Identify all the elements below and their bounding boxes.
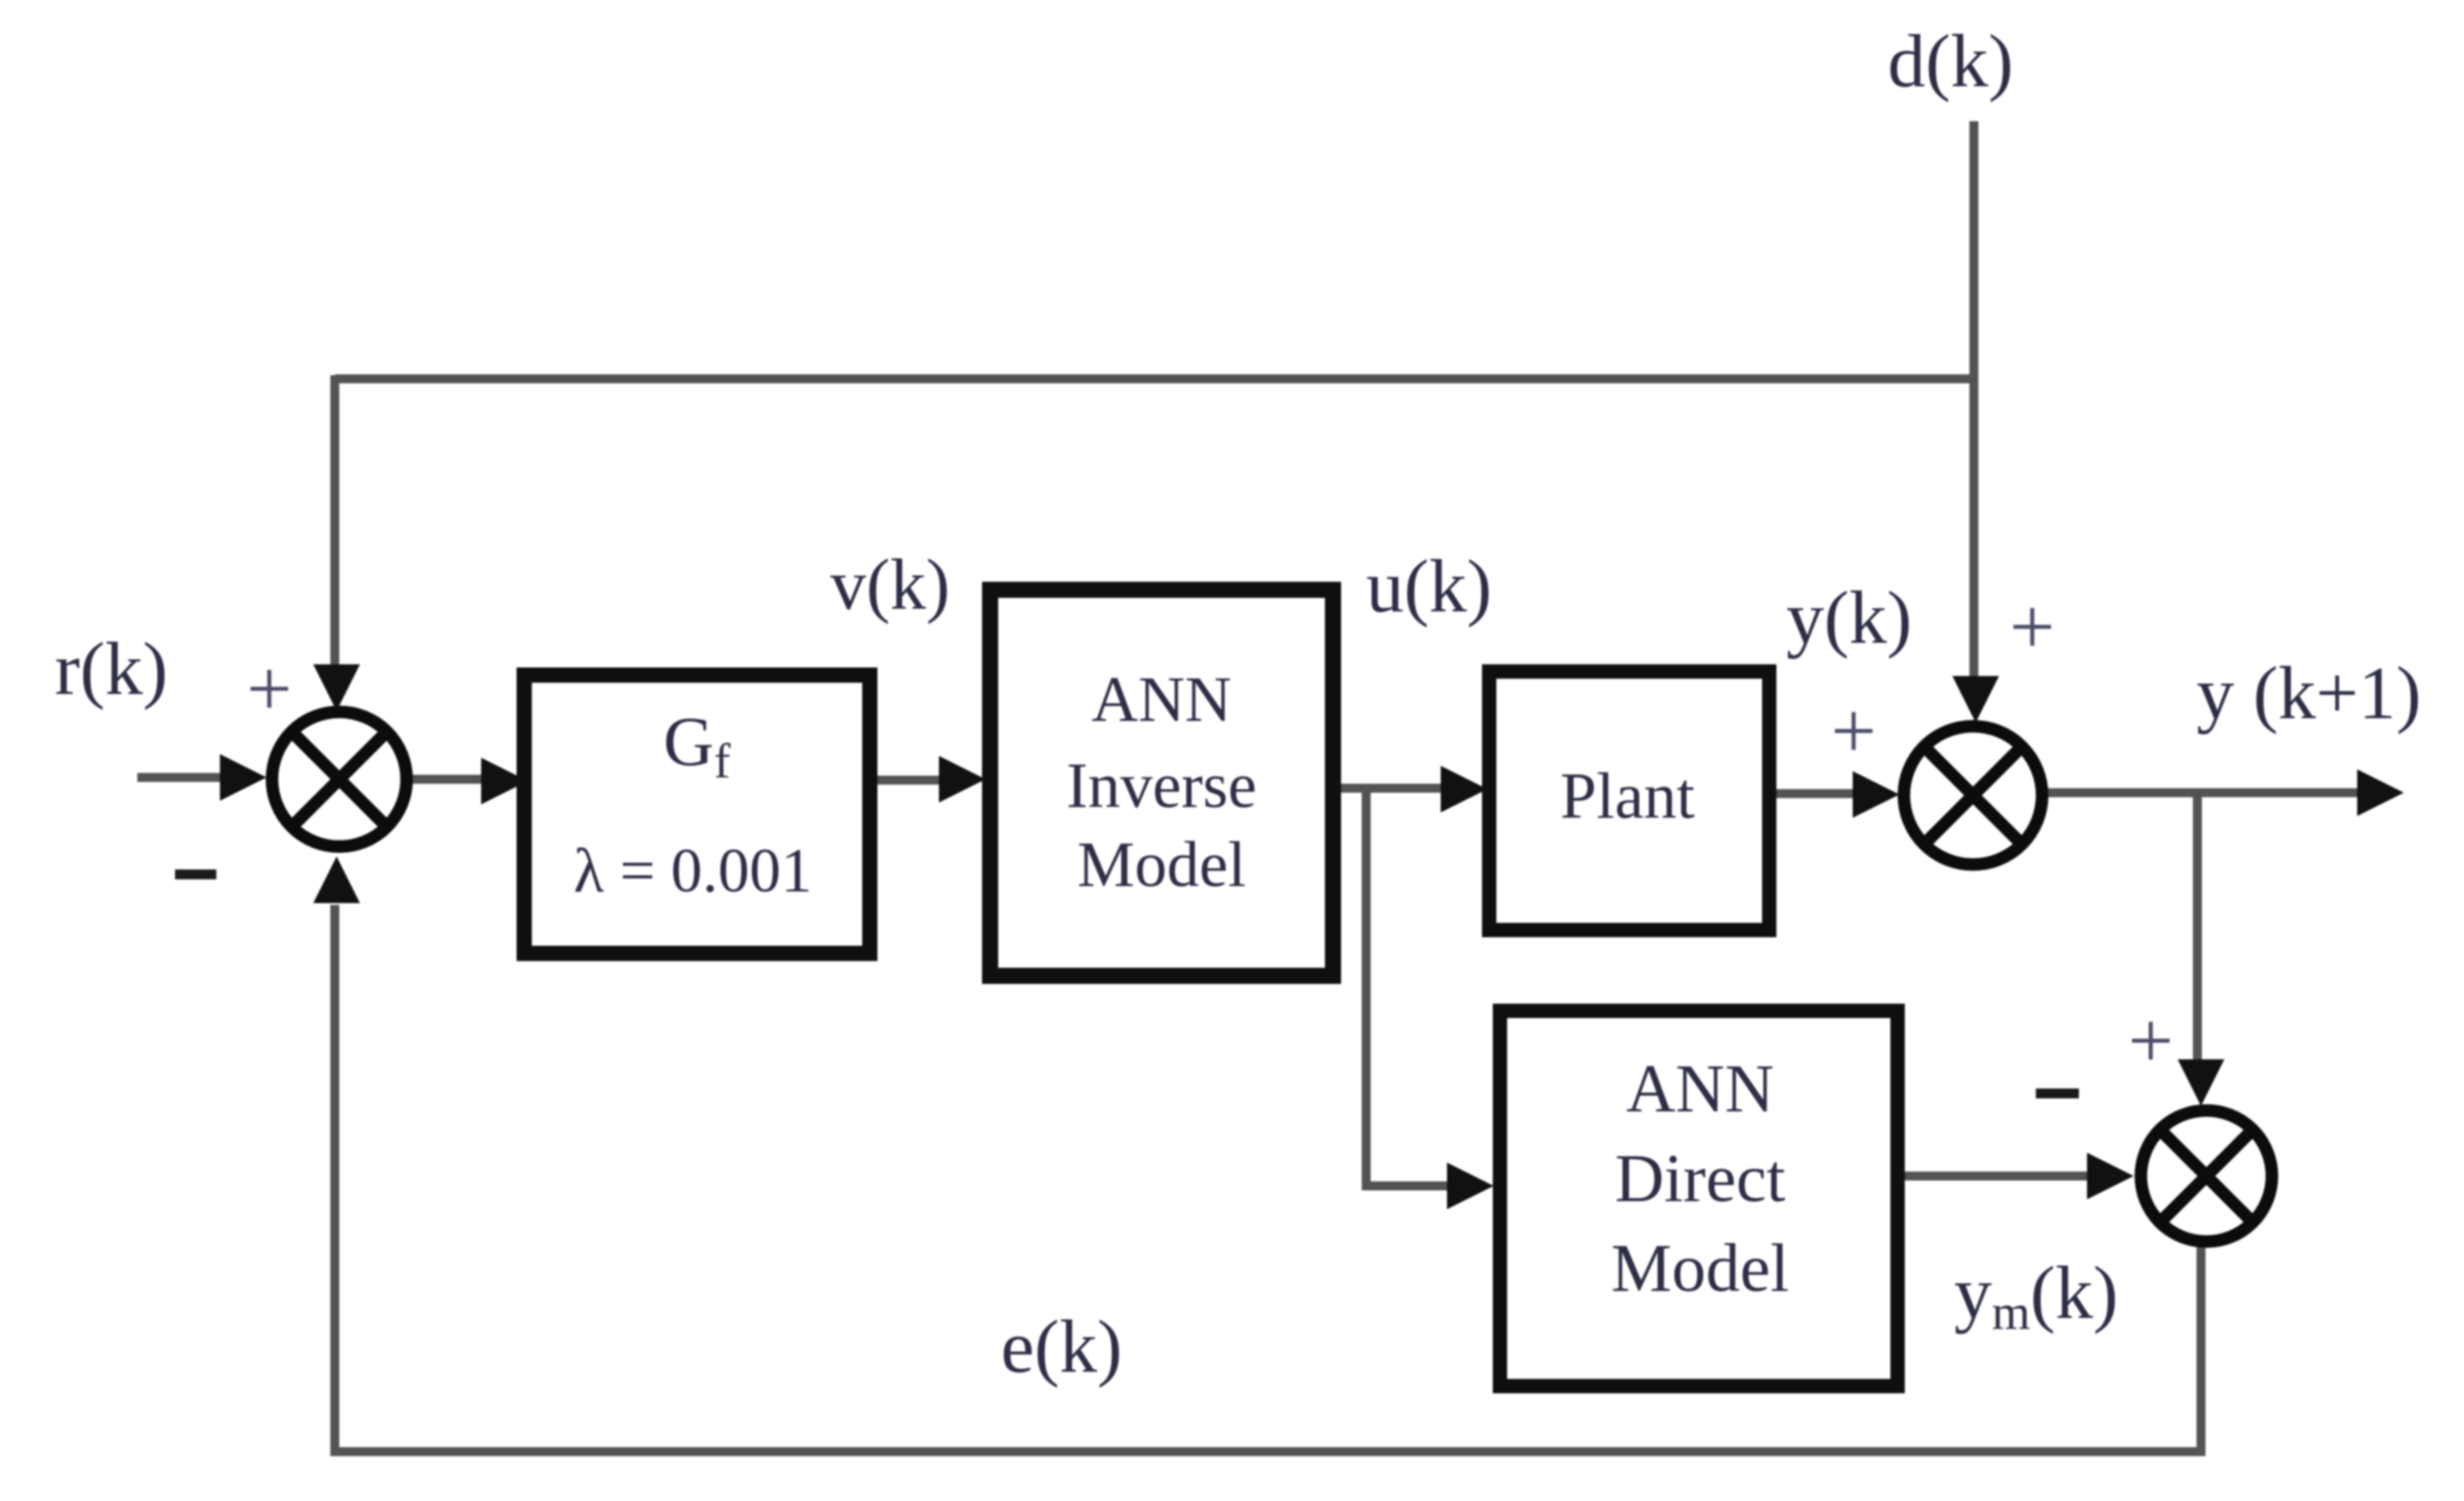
svg-text:+: + [1831,687,1877,776]
svg-text:+: + [247,645,293,733]
svg-text:r(k): r(k) [55,628,168,711]
svg-text:ANN: ANN [1627,1051,1775,1127]
svg-text:+: + [2128,996,2174,1085]
svg-text:Inverse: Inverse [1066,750,1257,821]
svg-text:+: + [2010,583,2056,671]
svg-text:y(k): y(k) [1786,576,1912,660]
svg-text:v(k): v(k) [830,546,950,625]
svg-text:e(k): e(k) [1001,1305,1122,1389]
svg-text:Plant: Plant [1560,759,1695,832]
svg-text:ym(k): ym(k) [1954,1251,2118,1339]
svg-text:Model: Model [1077,829,1246,900]
svg-text:λ = 0.001: λ = 0.001 [574,837,812,906]
svg-text:u(k): u(k) [1366,545,1492,628]
svg-text:ANN: ANN [1092,663,1232,735]
svg-text:y (k+1): y (k+1) [2197,652,2421,735]
svg-text:Direct: Direct [1615,1141,1785,1216]
svg-text:d(k): d(k) [1888,20,2013,103]
svg-text:Model: Model [1611,1231,1789,1306]
